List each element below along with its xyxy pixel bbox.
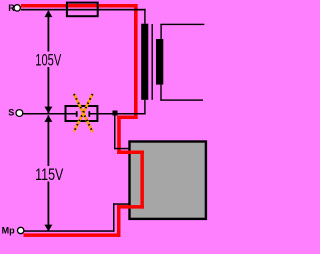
terminal R	[14, 5, 20, 11]
wire junction down to load box	[114, 116, 116, 150]
dimension arrow 115V lower head	[44, 225, 52, 232]
wire down to transformer primary top	[144, 9, 145, 24]
terminal S	[16, 110, 23, 117]
load box M1	[130, 142, 206, 219]
dimension arrow 105V upper head	[44, 10, 52, 17]
wire (red highlight) vertical inside load box	[140, 151, 144, 209]
junction node	[113, 111, 118, 116]
wire (red highlight) vertical from S junction down	[117, 116, 121, 155]
wire (red highlight) vertical beside transformer primary	[134, 4, 138, 119]
wire down to Mp row	[113, 203, 115, 232]
deletion cross stroke 1	[74, 94, 93, 132]
dimension arrow 105V line	[48, 11, 50, 113]
label 105V background	[34, 52, 65, 68]
wire secondary top horizontal	[160, 24, 204, 25]
svg-text:S: S	[8, 107, 14, 117]
wire secondary bottom lead	[160, 85, 161, 101]
wire S row right	[90, 113, 146, 115]
wire secondary bottom horizontal	[160, 99, 203, 100]
wire into load box top terminal	[114, 148, 130, 150]
svg-text:105V: 105V	[35, 51, 61, 69]
wire (red highlight) R row horizontal	[21, 4, 138, 8]
wire secondary top lead	[160, 24, 161, 39]
wire (red highlight) out of load box	[117, 205, 144, 209]
terminal Mp	[18, 227, 24, 233]
transformer T1 core	[152, 24, 153, 100]
dimension arrow 115V upper head	[44, 115, 52, 122]
wire (red highlight) jog at S row	[117, 116, 137, 120]
deletion cross stroke 2	[74, 94, 93, 132]
break tick left	[76, 111, 78, 117]
svg-text:115V: 115V	[35, 166, 63, 184]
break tick right	[88, 111, 90, 117]
wire out of load box bottom terminal	[113, 203, 130, 205]
wire R row	[21, 9, 146, 11]
svg-text:R: R	[8, 3, 15, 13]
fuse F1	[67, 3, 98, 17]
wire (red highlight) vertical down to Mp row	[117, 205, 121, 237]
resistor R1 (removed)	[66, 106, 98, 121]
wire (red highlight) Mp row horizontal	[24, 233, 121, 237]
deletion cross stroke 1 dots	[74, 94, 93, 132]
deletion cross stroke 2 dots	[74, 94, 93, 132]
wire Mp row	[21, 230, 115, 232]
svg-text:Mp: Mp	[2, 226, 15, 236]
dimension arrow 105V lower head	[44, 107, 52, 114]
wire S row left	[21, 113, 77, 115]
label 115V background	[34, 166, 66, 182]
wire (red highlight) into load box	[117, 151, 144, 155]
transformer T1 secondary winding	[156, 39, 163, 85]
wire primary bottom to S row	[144, 100, 145, 115]
dimension arrow 115V line	[48, 115, 50, 231]
transformer T1 primary winding	[141, 24, 148, 100]
